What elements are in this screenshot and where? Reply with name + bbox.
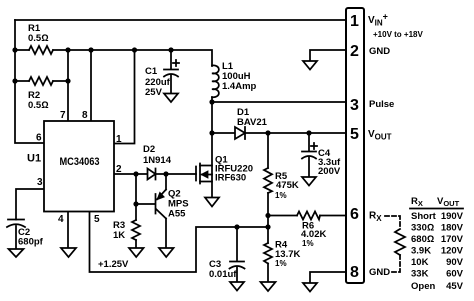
table RX VOUT header <box>410 196 463 209</box>
wire pin 2 GND hook <box>310 50 346 61</box>
node R2 pin7 <box>65 78 70 83</box>
svg-text:45V: 45V <box>446 281 464 292</box>
table row 680 170V <box>411 234 464 245</box>
svg-text:IRF630: IRF630 <box>215 173 246 184</box>
svg-text:8: 8 <box>82 110 88 121</box>
svg-text:1%: 1% <box>275 191 287 200</box>
connector J1 <box>346 8 364 283</box>
svg-text:2: 2 <box>350 43 359 60</box>
svg-text:A55: A55 <box>168 209 186 220</box>
node C4 top <box>306 130 311 135</box>
wire left rail to pin 6 <box>15 20 44 143</box>
node R4 top <box>265 224 270 229</box>
svg-text:1: 1 <box>116 134 122 145</box>
svg-text:+1.25V: +1.25V <box>98 259 129 270</box>
ground C4 <box>302 177 316 186</box>
svg-text:5: 5 <box>94 214 100 225</box>
ground C2 <box>9 249 24 257</box>
svg-text:D2: D2 <box>143 144 155 155</box>
capacitor C2 <box>7 220 44 250</box>
svg-text:6: 6 <box>350 206 359 223</box>
wire pin 3 to C2 <box>16 189 44 220</box>
wire mid rail to L1 <box>53 50 212 66</box>
svg-text:GND: GND <box>369 267 390 278</box>
capacitor C1 <box>145 50 179 98</box>
svg-text:90V: 90V <box>446 257 464 268</box>
resistor RX external <box>395 229 405 255</box>
node rail-R2 <box>12 78 17 83</box>
wire D1 cathode to VOUT pin 5 <box>245 132 346 134</box>
node D2 cathode <box>163 171 168 176</box>
table row 10K 90V <box>411 257 464 268</box>
svg-text:3: 3 <box>350 97 359 114</box>
node Q1 drain <box>209 130 214 135</box>
wire R5 top lead <box>267 133 269 168</box>
resistor R1 <box>28 23 53 54</box>
svg-text:3.9K: 3.9K <box>411 246 431 257</box>
resistor R5 <box>264 168 299 200</box>
svg-text:330Ω: 330Ω <box>411 223 434 234</box>
diode D2 1N914 <box>143 144 172 180</box>
wire R6 left lead <box>268 215 297 217</box>
svg-text:MC34063: MC34063 <box>60 156 100 168</box>
wire D1 anode lead <box>212 132 235 134</box>
svg-text:1.4Amp: 1.4Amp <box>222 81 257 92</box>
wire pin 8 GND hook <box>310 272 346 283</box>
table row 33K 60V <box>411 269 464 280</box>
transistor Q2 MPS A55 <box>156 174 189 248</box>
transistor Q1 MOSFET <box>196 133 253 197</box>
node Q2 base <box>133 201 138 206</box>
ground pin 4 <box>61 248 76 257</box>
resistor R2 <box>28 77 53 111</box>
table row 3.9K 120V <box>411 246 464 257</box>
ground C3 <box>230 282 244 291</box>
node rail-R1 <box>12 47 17 52</box>
svg-text:C1: C1 <box>145 66 158 77</box>
svg-text:5: 5 <box>350 126 359 143</box>
svg-text:6: 6 <box>36 133 42 144</box>
wire C3 top lead <box>236 227 238 260</box>
ground pin 8 <box>303 283 317 292</box>
wire dashed RX top <box>385 216 400 229</box>
wire L1 bottom to Q1 drain <box>211 97 213 133</box>
resistor R3 <box>113 220 140 241</box>
wire R2 to pin7 vertical <box>53 80 68 82</box>
wire D2 cathode to Q1 gate <box>156 173 197 175</box>
inductor L1 <box>212 61 257 97</box>
wire dashed RX bottom <box>392 255 400 272</box>
node pin1 top <box>132 47 137 52</box>
svg-text:+10V to +18V: +10V to +18V <box>373 30 423 39</box>
ground Q2 collector <box>159 248 174 257</box>
wire R5 bottom through nodes to R4 <box>267 193 269 243</box>
wire pin 7 <box>67 50 69 121</box>
node D2 anode <box>133 171 138 176</box>
svg-text:4: 4 <box>58 214 64 225</box>
svg-text:190V: 190V <box>441 211 464 222</box>
svg-text:475K: 475K <box>276 180 299 191</box>
node C1 top <box>168 47 173 52</box>
wire pin 1 <box>114 50 135 144</box>
svg-text:1%: 1% <box>275 259 287 268</box>
node R5 top <box>265 130 270 135</box>
svg-text:Pulse: Pulse <box>369 99 394 110</box>
wire R6 right lead to pin 6 <box>320 215 346 217</box>
svg-text:7: 7 <box>60 110 66 121</box>
svg-text:1K: 1K <box>113 230 125 241</box>
svg-text:0.5Ω: 0.5Ω <box>28 33 49 44</box>
svg-text:180V: 180V <box>441 223 464 234</box>
wire pulse <box>212 101 346 103</box>
svg-text:1N914: 1N914 <box>143 155 172 166</box>
ground C1 <box>164 94 178 103</box>
svg-text:60V: 60V <box>446 269 464 280</box>
svg-text:GND: GND <box>369 46 390 57</box>
ground R4 <box>261 282 276 291</box>
node pin7 top <box>65 47 70 52</box>
resistor R6 <box>297 212 326 249</box>
wire R2 left lead <box>15 80 29 82</box>
node R5-R6 <box>265 213 270 218</box>
svg-text:0.5Ω: 0.5Ω <box>28 100 49 111</box>
node pin8 top <box>88 47 93 52</box>
ground pin 2 <box>303 61 317 70</box>
svg-text:0.01uf: 0.01uf <box>209 269 237 280</box>
table row Short 190V <box>411 211 464 222</box>
svg-text:BAV21: BAV21 <box>237 117 268 128</box>
svg-text:680Ω: 680Ω <box>411 234 434 245</box>
table row 330 180V <box>411 223 464 234</box>
svg-text:8: 8 <box>350 264 359 281</box>
node pulse tap <box>209 99 214 104</box>
svg-text:1%: 1% <box>302 239 314 248</box>
svg-text:10K: 10K <box>411 257 429 268</box>
svg-text:25V: 25V <box>145 87 163 98</box>
wire R3 bottom lead <box>135 240 137 248</box>
svg-text:1: 1 <box>350 13 359 30</box>
table row Open 45V <box>411 281 464 292</box>
node C3 top <box>234 224 239 229</box>
wire Q2 base <box>136 203 155 205</box>
op-amp U1 MC34063 <box>27 121 114 212</box>
svg-text:33K: 33K <box>411 269 429 280</box>
wire R3 top lead <box>135 204 137 220</box>
ground R3 <box>129 248 144 257</box>
svg-text:Short: Short <box>411 211 437 222</box>
svg-text:680pf: 680pf <box>18 237 44 248</box>
svg-text:Open: Open <box>411 281 435 292</box>
svg-text:2: 2 <box>116 164 122 175</box>
svg-text:U1: U1 <box>27 153 41 165</box>
wire D2 node down to Q2 base node <box>135 174 137 204</box>
svg-text:3: 3 <box>37 177 43 188</box>
svg-text:170V: 170V <box>441 234 464 245</box>
capacitor C3 <box>209 259 245 282</box>
wire pin 2 to D2 <box>114 173 148 175</box>
wire R1 left lead <box>15 49 29 51</box>
wire R4 bottom lead <box>267 264 269 283</box>
wire pin 8 <box>90 50 92 121</box>
wire pin 4 stub <box>67 211 69 248</box>
wire top VIN rail <box>15 19 346 21</box>
diode D1 BAV21 <box>235 107 268 139</box>
resistor R4 <box>264 240 300 269</box>
ground Q1 source <box>205 198 219 207</box>
capacitor C4 <box>302 133 341 177</box>
wire +1.25V feedback rail <box>90 212 269 273</box>
svg-text:200V: 200V <box>318 166 341 177</box>
svg-text:120V: 120V <box>441 246 464 257</box>
